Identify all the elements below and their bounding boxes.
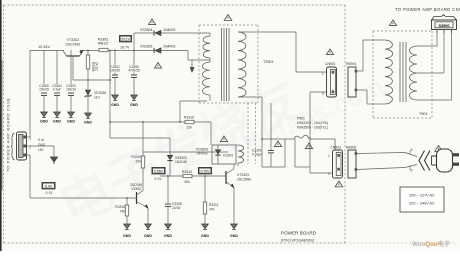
wire secondary taps to S3900 bbox=[417, 45, 437, 47]
svg-text:220 ~ 240V AC: 220 ~ 240V AC bbox=[409, 202, 435, 206]
zener diode VD3330 11V bbox=[85, 90, 90, 95]
svg-text:2SC2481: 2SC2481 bbox=[66, 42, 81, 46]
ground C3302 bbox=[112, 95, 119, 100]
wire down to IC3301 bbox=[210, 122, 212, 145]
svg-text:K9A2505 - 103(TCL): K9A2505 - 103(TCL) bbox=[297, 126, 328, 130]
ground VT3303 emitter bbox=[231, 224, 238, 229]
power board outline (dashed) bbox=[4, 4, 346, 6]
wire T3301 secondary bottom return bbox=[180, 100, 207, 102]
warning triangle near C3301 bbox=[274, 141, 281, 147]
T3301 primary winding bbox=[238, 32, 246, 97]
transistor VT3303 2SC3942 (switch) bbox=[225, 171, 227, 184]
svg-text:V3302: V3302 bbox=[131, 187, 141, 191]
svg-text:VS3304: VS3304 bbox=[140, 28, 153, 32]
T3301 secondary winding lower bbox=[202, 62, 210, 95]
warning triangle above CN901 bbox=[326, 49, 333, 55]
svg-text:GND: GND bbox=[84, 121, 92, 125]
wire base to R3303 node bbox=[73, 79, 110, 81]
svg-text:WB1/2: WB1/2 bbox=[98, 42, 109, 46]
svg-text:3: 3 bbox=[411, 148, 413, 152]
opto IC3301 box bbox=[212, 145, 236, 164]
svg-text:15V: 15V bbox=[38, 148, 45, 152]
svg-text:100 ~ 127V AC: 100 ~ 127V AC bbox=[409, 194, 435, 198]
callout 20.1V bbox=[120, 36, 132, 42]
ground R3315 bbox=[124, 224, 131, 229]
resistor R3311 47k bbox=[204, 176, 206, 202]
svg-text:S3900: S3900 bbox=[439, 24, 450, 28]
node junction at x134 bbox=[133, 33, 135, 51]
svg-text:4.7µF: 4.7µF bbox=[53, 88, 61, 92]
svg-text:0.1V: 0.1V bbox=[46, 191, 54, 195]
diode VD3306 1N4003 bbox=[215, 150, 220, 154]
svg-text:RB902: RB902 bbox=[346, 146, 356, 150]
T901 primary winding bbox=[385, 40, 393, 104]
svg-text:100/16: 100/16 bbox=[66, 88, 76, 92]
wire primary top to CN901 bbox=[295, 32, 297, 72]
svg-text:GND: GND bbox=[230, 234, 238, 238]
resistor R3303 24 1/2 bbox=[87, 51, 89, 55]
wire 24V line to diode VS3304 bbox=[134, 32, 154, 34]
warning triangle below VS3305 bbox=[154, 63, 161, 69]
ground R3311 bbox=[202, 224, 209, 229]
svg-text:GND: GND bbox=[123, 234, 131, 238]
transformer T3301 outline (dashed) bbox=[199, 24, 258, 26]
svg-text:GND: GND bbox=[130, 103, 138, 107]
wire net 0.65V bbox=[143, 151, 228, 153]
transistor VT3302 2SC2481 (series regulator) bbox=[67, 55, 80, 57]
wire secondary bottom tap bbox=[209, 95, 211, 101]
wire 0.1V net bbox=[30, 197, 132, 199]
svg-text:T3301: T3301 bbox=[263, 60, 274, 64]
svg-text:R3316: R3316 bbox=[184, 116, 194, 120]
svg-text:R3303: R3303 bbox=[91, 62, 95, 72]
svg-text:VT3302: VT3302 bbox=[67, 38, 80, 42]
resistor R3302 on rail bbox=[99, 48, 108, 51]
svg-text:30k: 30k bbox=[184, 180, 190, 184]
svg-text:CN901: CN901 bbox=[325, 62, 336, 66]
svg-text:100/16: 100/16 bbox=[39, 88, 49, 92]
svg-text:VT3303: VT3303 bbox=[237, 173, 249, 177]
svg-text:R3319: R3319 bbox=[131, 155, 141, 159]
T3301 secondary winding upper bbox=[203, 36, 210, 58]
capacitor C3308 22/16 bbox=[167, 176, 169, 203]
svg-text:1: 1 bbox=[328, 154, 330, 158]
svg-text:0.01µF: 0.01µF bbox=[252, 153, 262, 157]
wire R3303 to zener bbox=[87, 69, 89, 89]
connector S3900 bbox=[432, 15, 457, 20]
svg-text:TO POWER AMP BOARD CN906: TO POWER AMP BOARD CN906 bbox=[395, 7, 460, 12]
ground connector pin2 bbox=[51, 157, 58, 162]
AC power cord wires bbox=[356, 153, 405, 154]
resistor R3316 130 bbox=[185, 120, 194, 123]
svg-text:V cc: V cc bbox=[38, 138, 45, 142]
ground C3305 bbox=[131, 95, 138, 100]
svg-text:GND: GND bbox=[144, 234, 152, 238]
svg-text:R3311: R3311 bbox=[209, 203, 219, 207]
connector CN3B bbox=[12, 133, 15, 160]
svg-text:24 1/2: 24 1/2 bbox=[95, 62, 99, 71]
warning triangle above T3301 bbox=[224, 15, 232, 21]
svg-text:VD3330: VD3330 bbox=[94, 91, 106, 95]
wire RB901 to T901 primary bbox=[356, 70, 363, 72]
wire pin2 to gnd bbox=[27, 145, 55, 147]
warning triangle above VS3304 bbox=[148, 19, 155, 25]
wire pin3 to +B bbox=[27, 136, 31, 138]
svg-text:K9A2203 - 104(Y2K): K9A2203 - 104(Y2K) bbox=[297, 121, 328, 125]
callout 8.4V bbox=[42, 183, 55, 189]
wire cap columns from rail bbox=[43, 50, 45, 84]
svg-text:R3310: R3310 bbox=[182, 170, 192, 174]
resistor R3319 62k bbox=[142, 122, 144, 156]
T3301 core bbox=[221, 28, 223, 101]
wire snubber return bbox=[262, 166, 285, 168]
diode VS3305 1N4003 bbox=[155, 48, 161, 53]
svg-text:100/35: 100/35 bbox=[110, 69, 120, 73]
warning triangle under P901 bbox=[305, 143, 312, 149]
svg-text:0.65V: 0.65V bbox=[154, 169, 164, 173]
svg-text:R3315: R3315 bbox=[115, 205, 125, 209]
svg-text:20.1V: 20.1V bbox=[121, 37, 131, 41]
wire secondary top tap bbox=[207, 32, 210, 34]
svg-text:WooQoo电子: WooQoo电子 bbox=[412, 240, 451, 248]
label AC voltage range box bbox=[400, 187, 444, 212]
wire 16.7V feed down bbox=[109, 51, 111, 139]
callout 0.65V bbox=[152, 168, 165, 174]
wire +B rail 10.34V bbox=[30, 50, 64, 52]
svg-text:0.75V: 0.75V bbox=[201, 169, 211, 173]
svg-text:VS3305: VS3305 bbox=[140, 45, 153, 49]
warning triangle below CN902 bbox=[335, 181, 343, 187]
svg-text:11V: 11V bbox=[94, 96, 101, 100]
wire cap column C3302 bbox=[114, 51, 116, 66]
svg-text:1N4003: 1N4003 bbox=[163, 45, 175, 49]
svg-text:75k: 75k bbox=[120, 209, 126, 213]
T901 secondary winding bbox=[410, 46, 417, 100]
svg-text:22/16: 22/16 bbox=[172, 206, 180, 210]
svg-text:GND: GND bbox=[201, 234, 209, 238]
svg-text:GND: GND bbox=[40, 120, 48, 124]
wire VT3303 base net bbox=[160, 175, 183, 177]
transformer T901 outline (dashed) bbox=[373, 30, 432, 32]
svg-text:T901: T901 bbox=[419, 112, 428, 116]
wire pin1 down bbox=[27, 154, 31, 156]
svg-text:CN902: CN902 bbox=[331, 146, 342, 150]
svg-text:2: 2 bbox=[328, 172, 330, 176]
decor skipped-label bbox=[51, 71, 310, 237]
diode VS3303 1N4148 bbox=[169, 138, 171, 155]
ground C3304 bbox=[54, 112, 61, 117]
svg-text:3: 3 bbox=[322, 92, 324, 96]
svg-text:IC3301: IC3301 bbox=[223, 154, 234, 158]
resistor R3315 75k bbox=[126, 198, 128, 205]
wire primary bottom down to P901 link bbox=[261, 97, 263, 167]
svg-text:GND: GND bbox=[111, 103, 119, 107]
warning triangle above IC3301 bbox=[220, 136, 227, 142]
warning triangle top right bbox=[389, 20, 396, 26]
AC plug bbox=[432, 156, 437, 165]
svg-text:GND: GND bbox=[164, 234, 172, 238]
callout 0.75V bbox=[199, 168, 212, 174]
svg-text:5: 5 bbox=[411, 169, 413, 173]
svg-text:16.7V: 16.7V bbox=[120, 46, 130, 50]
svg-text:130: 130 bbox=[186, 126, 192, 130]
wire cap column C3305 bbox=[133, 51, 135, 66]
ground C3303 bbox=[68, 112, 75, 117]
svg-text:0.1V: 0.1V bbox=[155, 177, 163, 181]
ground C3309 bbox=[41, 112, 48, 117]
T901 core bbox=[399, 42, 401, 102]
svg-text:1: 1 bbox=[322, 72, 324, 76]
ground VD3330 bbox=[87, 97, 89, 113]
wire primary bottom tap bbox=[238, 96, 262, 98]
svg-text:1N4148: 1N4148 bbox=[175, 160, 187, 164]
diode VS3304 1N4003 bbox=[155, 30, 161, 35]
cord break symbol bbox=[419, 151, 430, 171]
wire CN901 pin3 branch bbox=[310, 91, 327, 93]
ground C3308 bbox=[165, 224, 172, 229]
svg-text:P901: P901 bbox=[297, 117, 305, 121]
resistor R3310 30k bbox=[183, 174, 192, 177]
svg-text:62k: 62k bbox=[136, 159, 142, 163]
svg-text:8.4V: 8.4V bbox=[45, 184, 53, 188]
wire secondary mid tap with arrow bbox=[192, 59, 210, 61]
svg-text:TO POWER AMP BOARD CN3B: TO POWER AMP BOARD CN3B bbox=[6, 98, 11, 172]
ground V3302 emitter bbox=[145, 224, 152, 229]
svg-text:10.34V: 10.34V bbox=[38, 45, 51, 49]
svg-text:GND: GND bbox=[38, 143, 46, 147]
T3301 feedback winding bbox=[238, 145, 244, 163]
wire lower horizontal net bbox=[110, 137, 170, 139]
svg-text:4700/25: 4700/25 bbox=[128, 69, 140, 73]
svg-text:POWER BOARD: POWER BOARD bbox=[281, 231, 317, 236]
transistor V3302 2SC945 bbox=[136, 192, 138, 204]
svg-text:GND: GND bbox=[67, 120, 75, 124]
svg-text:(P/N:LVPS3486DB): (P/N:LVPS3486DB) bbox=[281, 239, 315, 243]
svg-text:2SC3942: 2SC3942 bbox=[237, 177, 251, 181]
svg-text:RB901: RB901 bbox=[346, 62, 356, 66]
wire 16V line to diode VS3305 bbox=[134, 50, 154, 52]
snubber C3301 0.01uF bbox=[270, 103, 272, 150]
jumper P901 wavy wire bbox=[262, 135, 335, 150]
wire primary top tap bbox=[238, 31, 296, 33]
svg-text:GND: GND bbox=[53, 120, 61, 124]
svg-text:1N4003: 1N4003 bbox=[163, 28, 175, 32]
wire left vertical to connector bbox=[29, 50, 31, 137]
svg-text:47k: 47k bbox=[209, 207, 215, 211]
wire mid horizontal net bbox=[110, 121, 185, 123]
warning triangle above plug bbox=[435, 146, 443, 152]
